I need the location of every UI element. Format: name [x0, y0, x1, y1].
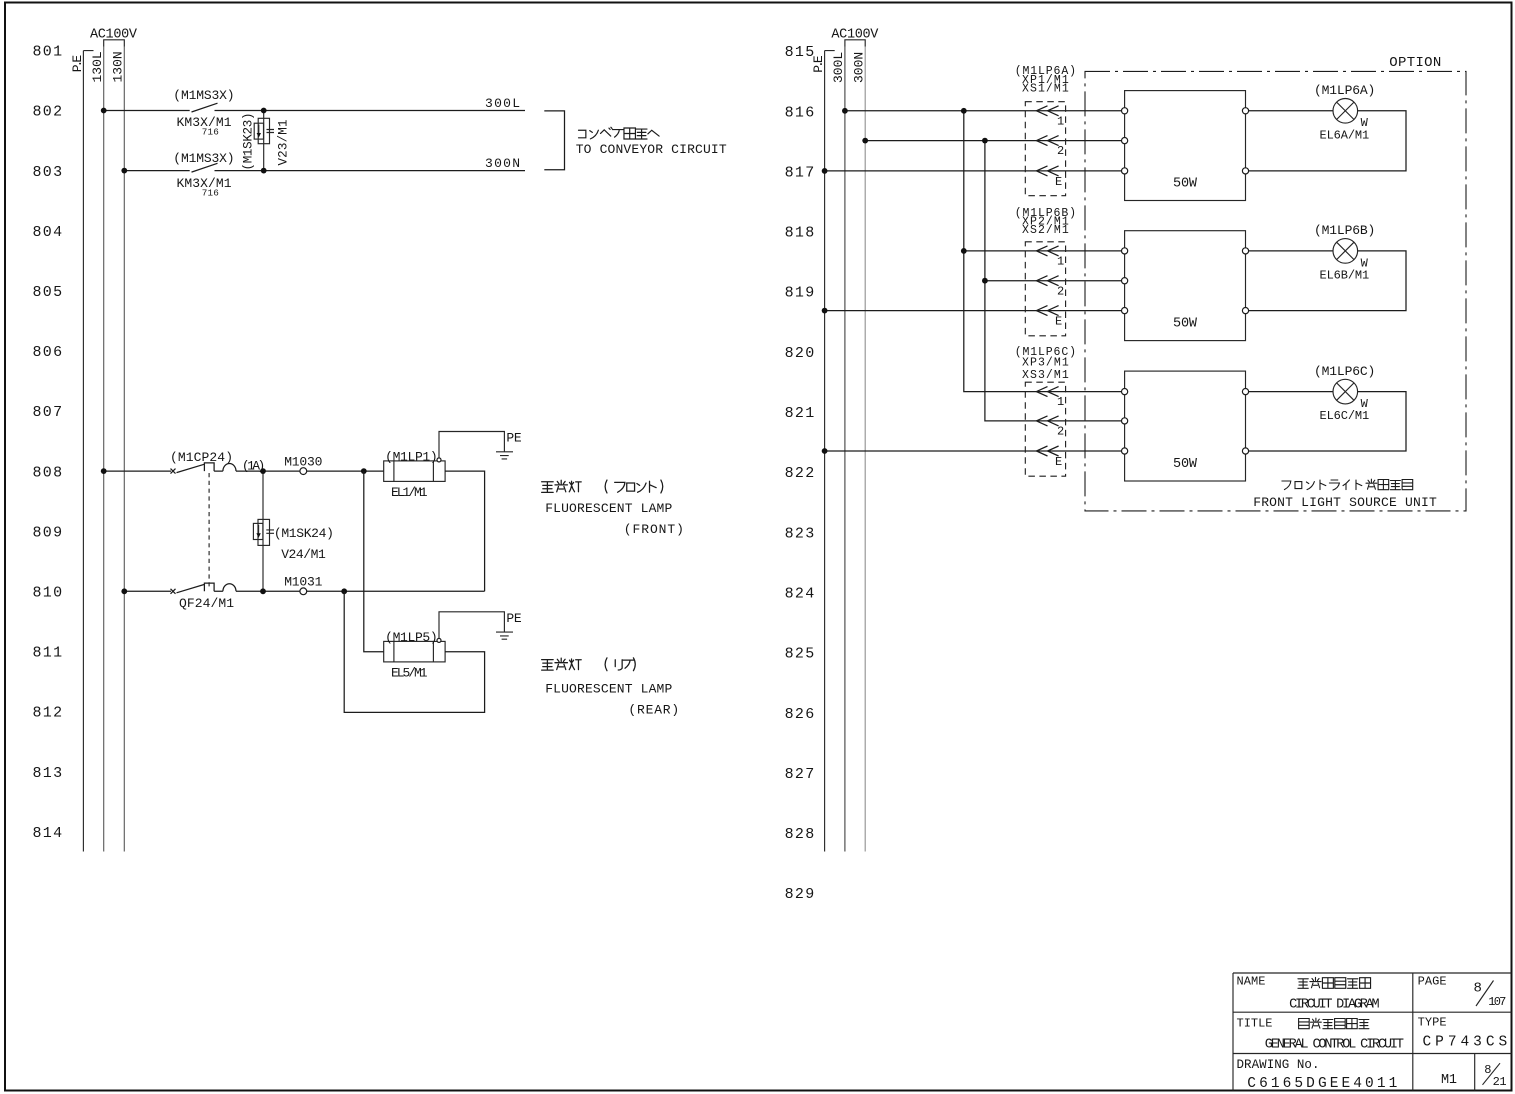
svg-text:808: 808	[33, 464, 64, 481]
net 300N (right rail)	[852, 47, 867, 852]
breaker QF24/M1 pole 1 (M1CP24)	[170, 450, 265, 474]
node dot 130L/808	[101, 468, 107, 474]
node dot branchL/B1	[961, 248, 967, 254]
wire EL5 return loop	[344, 591, 484, 712]
wire unit-A pin1	[845, 110, 1125, 112]
svg-text:FRONT LIGHT SOURCE UNIT: FRONT LIGHT SOURCE UNIT	[1253, 495, 1437, 510]
label コンベア回路へ	[579, 127, 660, 139]
node dot branchL/A1	[961, 108, 967, 114]
svg-text:8: 8	[1474, 980, 1482, 996]
svg-text:FLUORESCENT LAMP: FLUORESCENT LAMP	[545, 501, 672, 516]
svg-text:827: 827	[785, 766, 816, 783]
svg-text:1: 1	[1057, 114, 1064, 128]
svg-text:P.E: P.E	[70, 55, 85, 73]
fluorescent lamp EL5/M1 (M1LP5)	[384, 630, 445, 681]
wire unit-B pinE	[825, 310, 1125, 312]
branch vertical 300N feed	[985, 141, 1125, 421]
ballast unit C 50W	[1122, 371, 1249, 481]
svg-text:TO CONVEYOR CIRCUIT: TO CONVEYOR CIRCUIT	[576, 142, 727, 157]
svg-text:826: 826	[785, 706, 816, 723]
svg-text:(REAR): (REAR)	[628, 703, 679, 718]
svg-text:810: 810	[33, 585, 64, 602]
net P.E (left rail)	[70, 51, 94, 852]
net 130N (left rail)	[111, 47, 126, 852]
svg-text:TITLE: TITLE	[1237, 1016, 1273, 1030]
svg-text:E: E	[1055, 175, 1062, 189]
svg-text:PAGE: PAGE	[1418, 974, 1447, 988]
breaker QF24/M1 pole 2	[171, 583, 237, 611]
svg-text:801: 801	[33, 44, 64, 61]
svg-text:(M1LP5): (M1LP5)	[385, 630, 438, 645]
svg-text:(M1LP6C): (M1LP6C)	[1314, 364, 1375, 379]
svg-text:EL6A/M1: EL6A/M1	[1320, 128, 1370, 142]
svg-text:2: 2	[1057, 144, 1064, 158]
ballast unit A 50W	[1122, 91, 1249, 201]
svg-text:(M1SK23): (M1SK23)	[242, 113, 256, 171]
row labels 801-814	[33, 44, 64, 842]
label AC100V (left)	[90, 28, 138, 47]
svg-text:1: 1	[1057, 395, 1064, 409]
node dot varistor/808	[260, 468, 266, 474]
wire unit-A pinE	[825, 170, 1125, 172]
wire row 803 (300N feed)	[124, 170, 525, 172]
svg-text:EL6B/M1: EL6B/M1	[1320, 269, 1370, 283]
svg-text:21: 21	[1493, 1075, 1507, 1089]
svg-text:825: 825	[785, 646, 816, 663]
svg-text:820: 820	[785, 345, 816, 362]
lamp EL6C/M1 (M1LP6C)	[1249, 364, 1406, 451]
svg-text:819: 819	[785, 285, 816, 302]
terminal M1031	[284, 574, 322, 594]
svg-text:CIRCUIT DIAGRAM: CIRCUIT DIAGRAM	[1289, 997, 1380, 1012]
wire row 808 (lamp feed)	[104, 470, 384, 472]
svg-text:50W: 50W	[1173, 317, 1198, 332]
PE pigtail of EL5	[437, 611, 522, 643]
svg-text:EL1/M1: EL1/M1	[391, 485, 428, 500]
svg-text:XS2/M1: XS2/M1	[1022, 224, 1069, 237]
dashed mechanical link	[208, 473, 210, 589]
svg-text:P.E: P.E	[811, 55, 826, 73]
svg-text:829: 829	[785, 886, 816, 903]
svg-text:C6165DGEE4011: C6165DGEE4011	[1247, 1076, 1397, 1092]
svg-text:M1031: M1031	[284, 574, 322, 589]
svg-text:(M1LP6B): (M1LP6B)	[1314, 223, 1375, 238]
svg-text:816: 816	[785, 104, 816, 121]
wire unit-B pin1	[964, 250, 1125, 252]
svg-text:804: 804	[33, 224, 64, 241]
node dot 300N/A2	[862, 138, 868, 144]
svg-text:300N: 300N	[852, 52, 867, 83]
node dot 130L/802	[101, 108, 107, 114]
svg-text:805: 805	[33, 284, 64, 301]
caption 蛍光灯（フロント）	[542, 480, 663, 493]
svg-text:E: E	[1055, 315, 1062, 329]
svg-text:XS1/M1: XS1/M1	[1022, 83, 1069, 96]
svg-text:V23/M1: V23/M1	[277, 120, 291, 166]
svg-text:300N: 300N	[485, 156, 520, 171]
svg-text:OPTION: OPTION	[1389, 55, 1441, 71]
node dot branchN/A2	[982, 138, 988, 144]
svg-text:XS3/M1: XS3/M1	[1022, 369, 1069, 382]
svg-text:809: 809	[33, 524, 64, 541]
node dot 130N/810	[121, 588, 127, 594]
wire unit-C pinE	[825, 450, 1125, 452]
svg-text:NAME: NAME	[1237, 974, 1266, 988]
wire unit-B pin2	[985, 280, 1125, 282]
svg-text:107: 107	[1488, 995, 1506, 1009]
svg-text:812: 812	[33, 705, 64, 722]
svg-text:M1030: M1030	[284, 454, 322, 469]
ballast unit B 50W	[1122, 231, 1249, 341]
svg-text:821: 821	[785, 405, 816, 422]
svg-text:50W: 50W	[1173, 457, 1198, 472]
fluorescent lamp EL1/M1 (M1LP1)	[384, 449, 445, 500]
wire row 810 (lamp return)	[124, 590, 484, 592]
svg-text:300L: 300L	[831, 52, 846, 83]
connector XP3/M1 XS3/M1 (M1LP6C)	[1015, 346, 1076, 476]
svg-text:130L: 130L	[90, 51, 105, 82]
wire row 802 (300L feed)	[104, 110, 525, 112]
svg-text:XP3/M1: XP3/M1	[1022, 356, 1069, 369]
svg-text:2: 2	[1057, 284, 1064, 298]
node dot PE/817	[822, 168, 828, 174]
svg-text:716: 716	[202, 127, 219, 138]
net P.E (right rail)	[811, 51, 835, 852]
svg-text:(M1CP24): (M1CP24)	[170, 450, 233, 465]
PE pigtail of EL1	[437, 431, 522, 462]
contact KM3X/M1 pole 2 (M1MS3X)	[173, 151, 234, 199]
wire unit-A pin2	[865, 140, 1124, 142]
caption 蛍光灯（リア）	[542, 658, 636, 671]
branch vertical 300L feed	[964, 111, 1125, 392]
lamp EL6A/M1 (M1LP6A)	[1249, 83, 1406, 171]
svg-text:(M1SK24): (M1SK24)	[274, 526, 334, 541]
surge absorber V24/M1 (M1SK24)	[253, 471, 334, 591]
connector XP2/M1 XS2/M1 (M1LP6B)	[1015, 207, 1076, 336]
connector XP1/M1 XS1/M1 (M1LP6A)	[1015, 65, 1076, 196]
surge absorber V23/M1 (M1SK23)	[242, 111, 291, 171]
svg-text:130N: 130N	[111, 51, 126, 82]
net 130L (left rail)	[90, 47, 105, 852]
node dot 130N/803	[121, 168, 127, 174]
svg-text:(FRONT): (FRONT)	[624, 522, 684, 537]
svg-text:823: 823	[785, 525, 816, 542]
caption フロントライト光源装置	[1282, 479, 1413, 490]
svg-text:EL6C/M1: EL6C/M1	[1320, 409, 1370, 423]
svg-text:DRAWING No.: DRAWING No.	[1237, 1058, 1320, 1072]
svg-text:817: 817	[785, 164, 816, 181]
svg-text:EL5/M1: EL5/M1	[391, 665, 428, 680]
svg-text:(M1MS3X): (M1MS3X)	[173, 88, 234, 103]
svg-text:2: 2	[1057, 425, 1064, 439]
svg-text:1: 1	[1057, 255, 1064, 269]
svg-text:V24/M1: V24/M1	[281, 547, 326, 562]
node dot varistor/802	[261, 108, 267, 114]
node dot PE/BE	[822, 308, 828, 314]
node dot PE/CE	[822, 448, 828, 454]
contact KM3X/M1 pole 1 (M1MS3X)	[173, 88, 234, 138]
svg-text:828: 828	[785, 826, 816, 843]
node dot varistor/803	[261, 168, 267, 174]
wire row808 branch down to EL5	[364, 471, 384, 652]
svg-text:GENERAL CONTROL CIRCUIT: GENERAL CONTROL CIRCUIT	[1265, 1037, 1404, 1052]
svg-text:M1: M1	[1441, 1073, 1457, 1088]
svg-text:818: 818	[785, 225, 816, 242]
svg-text:803: 803	[33, 164, 64, 181]
svg-text:CP743CS: CP743CS	[1423, 1034, 1508, 1050]
svg-text:813: 813	[33, 765, 64, 782]
node dot 810/EL5 return	[341, 588, 347, 594]
label AC100V (right)	[831, 28, 879, 47]
wire EL1 to row 810	[445, 471, 485, 591]
svg-text:811: 811	[33, 645, 64, 662]
label 電気回路線図	[1298, 977, 1371, 988]
svg-text:PE: PE	[506, 611, 521, 626]
svg-text:802: 802	[33, 104, 64, 121]
svg-text:(M1LP6A): (M1LP6A)	[1314, 83, 1375, 98]
bracket to conveyor circuit	[544, 111, 564, 170]
svg-text:806: 806	[33, 344, 64, 361]
net 300L (right rail)	[831, 47, 846, 852]
svg-text:(M1MS3X): (M1MS3X)	[173, 151, 234, 166]
OPTION boundary (dash-dot)	[1085, 71, 1466, 511]
svg-text:FLUORESCENT LAMP: FLUORESCENT LAMP	[545, 682, 672, 697]
svg-text:824: 824	[785, 586, 816, 603]
node dot 808/EL5 branch	[361, 468, 367, 474]
node dot varistor/810	[260, 588, 266, 594]
svg-text:TYPE: TYPE	[1418, 1015, 1447, 1029]
svg-text:E: E	[1055, 455, 1062, 469]
title block	[1233, 973, 1512, 1092]
node dot 300L/816	[842, 108, 848, 114]
svg-text:300L: 300L	[485, 96, 520, 111]
terminal M1030	[284, 454, 322, 474]
svg-text:50W: 50W	[1173, 177, 1198, 192]
node dot branchN/B2	[982, 278, 988, 284]
row labels 815-829	[785, 44, 816, 903]
svg-text:(M1LP1): (M1LP1)	[385, 449, 438, 464]
svg-text:814: 814	[33, 825, 64, 842]
label 総合制御回路	[1299, 1018, 1369, 1029]
svg-text:PE: PE	[506, 431, 521, 446]
svg-text:QF24/M1: QF24/M1	[179, 596, 234, 611]
lamp EL6B/M1 (M1LP6B)	[1249, 223, 1406, 311]
svg-text:822: 822	[785, 465, 816, 482]
svg-text:807: 807	[33, 404, 64, 421]
svg-text:716: 716	[202, 187, 219, 198]
